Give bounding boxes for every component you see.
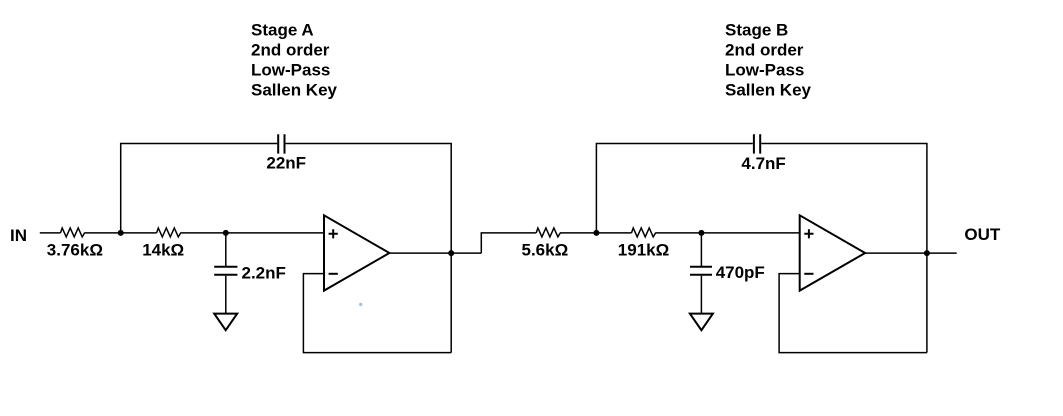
svg-text:5.6kΩ: 5.6kΩ xyxy=(522,241,569,260)
wire op-amp A output xyxy=(389,252,481,254)
wire R3 to R4 xyxy=(560,232,632,234)
wire IN lead xyxy=(40,232,61,234)
wire R2 to op-amp xyxy=(180,232,324,234)
svg-text:3.76kΩ: 3.76kΩ xyxy=(47,241,103,260)
svg-text:14kΩ: 14kΩ xyxy=(142,241,184,260)
wire minus input feedback loop B xyxy=(779,274,927,353)
wire op-amp B output xyxy=(865,252,957,254)
wire top-right segment and right riser B xyxy=(761,144,927,353)
capacitor C1 22nF xyxy=(278,134,284,153)
junction node 2 xyxy=(223,230,229,236)
capacitor C3 4.7nF xyxy=(754,134,760,153)
svg-text:IN: IN xyxy=(10,226,27,245)
junction node 5 xyxy=(698,230,704,236)
wire minus input feedback loop xyxy=(303,274,451,353)
capacitor C4 470pF xyxy=(690,267,712,275)
wire node2 down to C2 xyxy=(225,233,227,266)
resistor R4 191k xyxy=(632,228,656,237)
svg-text:2.2nF: 2.2nF xyxy=(242,263,286,282)
resistor R2 14k xyxy=(157,228,181,237)
op-amp U1 minus sign xyxy=(329,273,338,275)
junction node 4 xyxy=(593,230,599,236)
junction node 1 xyxy=(118,230,124,236)
wire inter-stage jog xyxy=(481,233,536,253)
wire R4 to op-amp B xyxy=(655,232,799,234)
ground stage B xyxy=(690,314,713,331)
op-amp U1 xyxy=(324,215,389,290)
junction node 6 output B xyxy=(924,250,930,256)
wire feedback B left riser and top-left segment xyxy=(596,144,752,233)
junction node 3 output A xyxy=(448,250,454,256)
ground stage A xyxy=(214,314,237,331)
resistor R3 5.6k xyxy=(536,228,560,237)
svg-text:OUT: OUT xyxy=(964,225,1001,244)
stray mark xyxy=(359,303,362,306)
op-amp U2 plus sign xyxy=(804,229,813,238)
svg-text:4.7nF: 4.7nF xyxy=(741,154,785,173)
wire top-right segment and right riser xyxy=(286,144,452,353)
wire feedback left riser and top-left segment xyxy=(121,144,277,233)
op-amp U2 xyxy=(800,215,865,290)
wire node5 down to C4 xyxy=(700,233,702,266)
op-amp U1 plus sign xyxy=(329,229,338,238)
svg-text:191kΩ: 191kΩ xyxy=(618,241,669,260)
wire R1 to R2 xyxy=(84,232,156,234)
capacitor C2 2.2nF xyxy=(214,267,237,275)
svg-text:22nF: 22nF xyxy=(266,154,306,173)
op-amp U2 minus sign xyxy=(804,273,813,275)
wire C4 to ground xyxy=(700,276,702,314)
resistor R1 3.76k xyxy=(61,228,85,237)
svg-text:470pF: 470pF xyxy=(716,263,765,282)
wire C2 to ground xyxy=(225,276,227,314)
